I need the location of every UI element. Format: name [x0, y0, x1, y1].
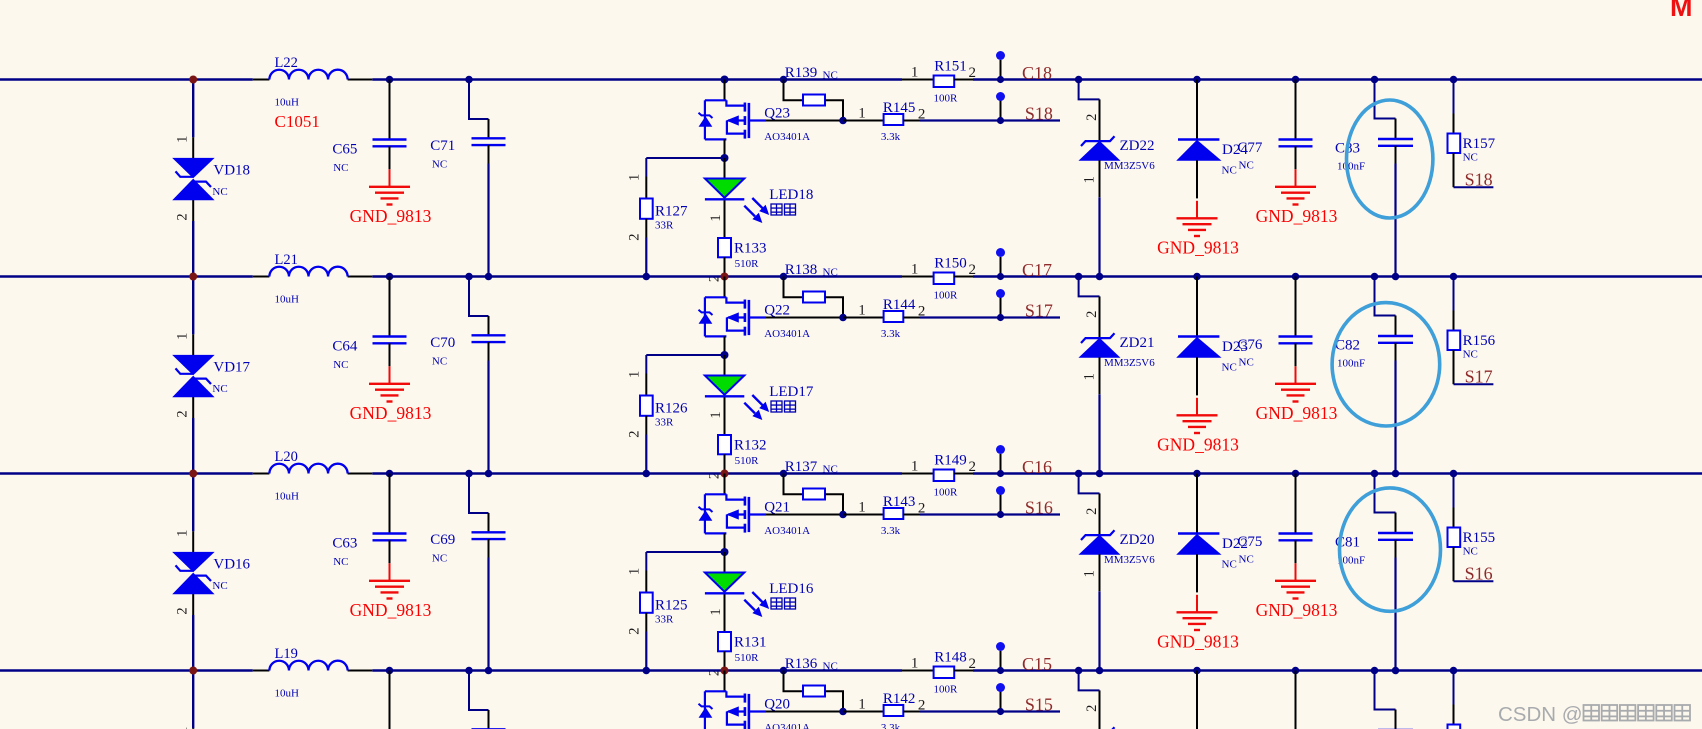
svg-text:C64: C64 — [332, 338, 358, 354]
svg-text:100R: 100R — [934, 93, 959, 105]
svg-text:GND_9813: GND_9813 — [350, 206, 432, 226]
capacitor C71 — [430, 80, 505, 171]
resistor R126 33R — [627, 371, 689, 438]
capacitor C75 NC — [1237, 474, 1312, 566]
svg-text:L19: L19 — [275, 646, 298, 662]
wire gate of Q22 — [766, 317, 843, 319]
resistor R127 33R — [627, 174, 689, 241]
LED light arrows LED18 — [744, 198, 768, 222]
svg-text:R145: R145 — [883, 100, 916, 116]
port S17 — [996, 289, 1053, 321]
zener diode ZD20 MM3Z5V6 — [1079, 474, 1156, 592]
inductor L21 — [253, 252, 372, 305]
svg-text:AO3401A: AO3401A — [764, 525, 810, 537]
node junction (1295,670.5) — [1292, 667, 1300, 675]
svg-text:R150: R150 — [934, 256, 967, 272]
svg-text:NC: NC — [333, 359, 348, 371]
node junction (1078.6,473.5) — [1075, 470, 1083, 478]
transistor Q22 AO3401A — [699, 277, 811, 356]
svg-text:CSDN @: CSDN @ — [1498, 703, 1583, 726]
svg-text:NC: NC — [212, 186, 227, 198]
resistor R155 NC — [1448, 474, 1496, 582]
svg-text:100nF: 100nF — [1337, 358, 1365, 370]
svg-text:M: M — [1670, 0, 1693, 22]
svg-text:L22: L22 — [275, 55, 298, 71]
svg-text:NC: NC — [1463, 349, 1478, 361]
svg-text:2: 2 — [175, 607, 191, 614]
label green-lamp (Chinese) for LED17 — [771, 401, 796, 412]
svg-text:R144: R144 — [883, 297, 916, 313]
node junction (488,473.5) — [485, 470, 493, 478]
svg-text:MM3Z5V6: MM3Z5V6 — [1104, 554, 1155, 566]
svg-text:33R: 33R — [655, 219, 674, 231]
svg-text:R155: R155 — [1463, 530, 1496, 546]
svg-text:C77: C77 — [1237, 140, 1263, 156]
node junction (1197,79.5) — [1193, 76, 1201, 84]
svg-text:1: 1 — [175, 530, 191, 537]
svg-text:2: 2 — [1084, 508, 1100, 515]
LED LED18 green — [705, 158, 813, 238]
svg-text:S17: S17 — [1465, 367, 1493, 387]
node junction (1453.5,473.5) — [1450, 470, 1458, 478]
resistor R132 510R — [707, 435, 767, 479]
wire ZD21 to lower bus — [1098, 394, 1100, 473]
node junction (646,276.5) — [643, 273, 651, 281]
svg-text:C65: C65 — [332, 141, 357, 157]
svg-text:S18: S18 — [1465, 170, 1493, 190]
svg-text:R132: R132 — [734, 437, 767, 453]
svg-text:Q23: Q23 — [764, 105, 790, 121]
resistor R139 NC — [784, 65, 844, 120]
resistor R150 100R — [902, 256, 976, 302]
transistor Q20 AO3401A — [699, 671, 811, 729]
node junction (193,79.5) — [189, 76, 197, 84]
wire C71 to lower bus — [487, 164, 489, 277]
svg-text:C15: C15 — [1022, 654, 1052, 674]
wire LED branch to R126 — [646, 355, 724, 374]
svg-text:10uH: 10uH — [275, 490, 300, 502]
port C17 — [996, 248, 1052, 280]
inductor L20 — [253, 449, 372, 502]
svg-text:2: 2 — [969, 65, 977, 81]
node junction (1078.6,670.5) — [1075, 667, 1083, 675]
svg-text:1: 1 — [1082, 570, 1098, 577]
svg-text:Q22: Q22 — [764, 302, 790, 318]
wire LED branch to R127 — [646, 158, 724, 177]
svg-text:GND_9813: GND_9813 — [1256, 206, 1338, 226]
node junction (1099.5,670.5) — [1096, 667, 1104, 675]
capacitor C74 NC — [1237, 671, 1312, 729]
node junction (488,670.5) — [485, 667, 493, 675]
node junction (843,514.5) — [839, 511, 847, 519]
node junction (1453.5,79.5) — [1450, 76, 1458, 84]
node junction (724,473.5) — [721, 470, 729, 478]
wire ZD22 to lower bus — [1098, 197, 1100, 276]
svg-text:ZD21: ZD21 — [1120, 335, 1155, 351]
node junction (783,473.5) — [780, 470, 788, 478]
svg-text:2: 2 — [627, 430, 643, 437]
port C16 — [996, 445, 1052, 477]
svg-text:C75: C75 — [1237, 534, 1262, 550]
svg-text:C76: C76 — [1237, 337, 1263, 353]
node junction (783,276.5) — [780, 273, 788, 281]
svg-text:2: 2 — [175, 213, 191, 220]
resistor R133 510R — [707, 238, 767, 282]
wire R125 to lower bus — [645, 632, 647, 671]
node junction (1197,473.5) — [1193, 470, 1201, 478]
svg-text:GND_9813: GND_9813 — [1256, 600, 1338, 620]
resistor R143 3.3k — [843, 494, 925, 537]
svg-text:R133: R133 — [734, 240, 767, 256]
ground GND_9813 under D24 — [1157, 201, 1239, 258]
node junction (783,79.5) — [780, 76, 788, 84]
node junction (1099.5,276.5) — [1096, 273, 1104, 281]
svg-text:R139: R139 — [785, 65, 818, 81]
svg-text:GND_9813: GND_9813 — [1157, 238, 1239, 258]
svg-text:NC: NC — [823, 464, 838, 476]
node junction (1295,473.5) — [1292, 470, 1300, 478]
ground GND_9813 under C65 — [350, 169, 432, 226]
svg-text:33R: 33R — [655, 613, 674, 625]
diode D22 NC — [1177, 474, 1247, 593]
svg-text:10uH: 10uH — [275, 96, 300, 108]
ground GND_9813 under D22 — [1157, 595, 1239, 652]
capacitor C83 100nF — [1335, 80, 1413, 173]
wire C69 to lower bus — [487, 558, 489, 671]
svg-text:VD16: VD16 — [213, 556, 250, 572]
svg-text:R125: R125 — [655, 598, 688, 614]
svg-text:NC: NC — [1222, 165, 1237, 177]
wire net C15 row bus y=670.5 — [0, 669, 1702, 671]
svg-text:2: 2 — [627, 627, 643, 634]
capacitor C69 — [430, 474, 505, 565]
wire net C18 row bus y=79.5 — [0, 78, 1702, 80]
svg-text:S18: S18 — [1025, 104, 1053, 124]
svg-text:NC: NC — [1239, 357, 1254, 369]
wire R127 to lower bus — [645, 238, 647, 277]
svg-text:GND_9813: GND_9813 — [1256, 403, 1338, 423]
resistor R138 NC — [784, 262, 844, 317]
resistor R136 NC — [784, 656, 844, 711]
node junction (469,276.5) — [465, 273, 473, 281]
node junction (843,120.5) — [839, 117, 847, 125]
svg-text:GND_9813: GND_9813 — [350, 403, 432, 423]
svg-text:NC: NC — [1463, 152, 1478, 164]
svg-text:GND_9813: GND_9813 — [1157, 435, 1239, 455]
resistor R137 NC — [784, 459, 844, 514]
svg-text:NC: NC — [1239, 160, 1254, 172]
wire net S17 — [920, 316, 1060, 318]
svg-text:1: 1 — [911, 458, 919, 474]
svg-text:LED17: LED17 — [769, 384, 814, 400]
svg-text:2: 2 — [175, 410, 191, 417]
svg-text:1: 1 — [708, 608, 724, 615]
svg-text:2: 2 — [627, 233, 643, 240]
zener diode ZD19 MM3Z5V6 — [1079, 671, 1156, 729]
node junction (193,276.5) — [189, 273, 197, 281]
resistor R144 3.3k — [843, 297, 925, 340]
TVS diode VD15 — [173, 728, 213, 729]
label green-lamp (Chinese) for LED16 — [771, 598, 796, 609]
resistor R142 3.3k — [843, 691, 925, 729]
svg-text:AO3401A: AO3401A — [764, 328, 810, 340]
wire left vertical x=193 — [192, 671, 194, 729]
wire C82 to lower bus — [1394, 361, 1396, 474]
svg-text:C70: C70 — [430, 335, 455, 351]
svg-text:Q21: Q21 — [764, 499, 790, 515]
resistor R149 100R — [902, 453, 976, 499]
svg-text:510R: 510R — [735, 258, 760, 270]
svg-text:1: 1 — [858, 499, 866, 515]
svg-text:ZD22: ZD22 — [1120, 138, 1155, 154]
port S16 — [996, 486, 1053, 518]
wire left vertical x=193 — [192, 277, 194, 476]
svg-text:R151: R151 — [934, 59, 967, 75]
resistor R148 100R — [902, 650, 976, 696]
capacitor C76 NC — [1237, 277, 1312, 369]
svg-text:R136: R136 — [785, 656, 818, 672]
net label S17 right stub — [1454, 367, 1494, 387]
port C15 — [996, 642, 1052, 674]
svg-text:3.3k: 3.3k — [881, 328, 901, 340]
annotation ellipse around C81 — [1340, 488, 1441, 611]
LED light arrows LED16 — [744, 592, 768, 616]
node junction (724,158.0) — [721, 154, 729, 162]
svg-text:VD18: VD18 — [213, 162, 250, 178]
zener diode ZD21 MM3Z5V6 — [1079, 277, 1156, 395]
svg-text:1: 1 — [708, 411, 724, 418]
svg-text:2: 2 — [1084, 114, 1100, 121]
wire net S16 — [920, 513, 1060, 515]
transistor Q23 AO3401A — [699, 80, 811, 159]
svg-text:1: 1 — [858, 302, 866, 318]
svg-text:10uH: 10uH — [275, 293, 300, 305]
LED light arrows LED17 — [744, 395, 768, 419]
node junction (1295,276.5) — [1292, 273, 1300, 281]
node junction (1374.5,79.5) — [1371, 76, 1379, 84]
svg-text:S16: S16 — [1465, 564, 1493, 584]
svg-text:S16: S16 — [1025, 498, 1053, 518]
capacitor C65 — [332, 80, 406, 175]
port S18 — [996, 92, 1053, 124]
svg-text:MM3Z5V6: MM3Z5V6 — [1104, 160, 1155, 172]
svg-text:NC: NC — [1222, 362, 1237, 374]
node junction (783,670.5) — [780, 667, 788, 675]
svg-text:3.3k: 3.3k — [881, 131, 901, 143]
svg-text:C16: C16 — [1022, 457, 1052, 477]
ground GND_9813 under C77 — [1256, 169, 1338, 226]
svg-text:C18: C18 — [1022, 63, 1052, 83]
capacitor C80 100nF — [1335, 671, 1413, 729]
LED LED16 green — [705, 552, 814, 632]
svg-text:R148: R148 — [934, 650, 967, 666]
wire C70 to lower bus — [487, 361, 489, 474]
svg-text:MM3Z5V6: MM3Z5V6 — [1104, 357, 1155, 369]
svg-text:R149: R149 — [934, 453, 967, 469]
resistor R151 100R — [902, 59, 976, 105]
svg-text:1: 1 — [627, 371, 643, 378]
svg-text:100nF: 100nF — [1337, 161, 1365, 173]
resistor R145 3.3k — [843, 100, 925, 143]
svg-text:R142: R142 — [883, 691, 916, 707]
diode D23 NC — [1177, 277, 1247, 396]
node junction (193,473.5) — [189, 470, 197, 478]
resistor R157 NC — [1448, 80, 1496, 188]
resistor R156 NC — [1448, 277, 1496, 385]
node junction (724,552.0) — [721, 548, 729, 556]
wire LED branch to R125 — [646, 552, 724, 571]
node junction (1374.5,276.5) — [1371, 273, 1379, 281]
ground GND_9813 under D23 — [1157, 398, 1239, 455]
svg-text:AO3401A: AO3401A — [764, 722, 810, 729]
svg-text:NC: NC — [1222, 559, 1237, 571]
node junction (469,473.5) — [465, 470, 473, 478]
capacitor C77 NC — [1237, 80, 1312, 172]
inductor L22 — [253, 55, 372, 108]
wire C81 to lower bus — [1394, 558, 1396, 671]
node junction (193,670.5) — [189, 667, 197, 675]
node junction (724,670.5) — [721, 667, 729, 675]
node junction (843,317.5) — [839, 314, 847, 322]
svg-text:GND_9813: GND_9813 — [350, 600, 432, 620]
capacitor C62 — [332, 671, 406, 729]
svg-text:C82: C82 — [1335, 337, 1360, 353]
node junction (646,670.5) — [643, 667, 651, 675]
resistor R131 510R — [707, 632, 767, 676]
wire left vertical x=193 — [192, 80, 194, 279]
node junction (1099.5,473.5) — [1096, 470, 1104, 478]
svg-text:NC: NC — [432, 355, 447, 367]
node junction (390,276.5) — [386, 273, 394, 281]
node junction (1197,276.5) — [1193, 273, 1201, 281]
wire ZD20 to lower bus — [1098, 591, 1100, 670]
svg-text:2: 2 — [969, 656, 977, 672]
wire R126 to lower bus — [645, 435, 647, 474]
watermark CSDN — [1498, 703, 1690, 726]
svg-text:2: 2 — [969, 262, 977, 278]
ground GND_9813 under C76 — [1256, 366, 1338, 423]
LED LED17 green — [705, 355, 814, 435]
wire gate of Q21 — [766, 514, 843, 516]
svg-text:NC: NC — [333, 162, 348, 174]
svg-text:1: 1 — [175, 333, 191, 340]
resistor R125 33R — [627, 568, 688, 635]
port C18 — [996, 51, 1052, 83]
node junction (1395.5,670.5) — [1392, 667, 1400, 675]
svg-text:NC: NC — [432, 158, 447, 170]
node junction (724,355.0) — [721, 351, 729, 359]
svg-text:C69: C69 — [430, 532, 455, 548]
svg-text:C17: C17 — [1022, 260, 1052, 280]
node junction (1395.5,473.5) — [1392, 470, 1400, 478]
svg-text:2: 2 — [1084, 311, 1100, 318]
svg-text:NC: NC — [823, 70, 838, 82]
svg-text:S15: S15 — [1025, 695, 1053, 715]
label green-lamp (Chinese) for LED18 — [771, 204, 796, 215]
svg-text:3.3k: 3.3k — [881, 525, 901, 537]
svg-text:NC: NC — [1239, 554, 1254, 566]
node junction (1395.5,276.5) — [1392, 273, 1400, 281]
svg-text:1: 1 — [1082, 373, 1098, 380]
svg-text:100R: 100R — [934, 487, 959, 499]
svg-text:NC: NC — [823, 661, 838, 673]
svg-text:2: 2 — [969, 459, 977, 475]
svg-text:R131: R131 — [734, 634, 767, 650]
node junction (724,276.5) — [721, 273, 729, 281]
svg-text:10uH: 10uH — [275, 687, 300, 699]
node junction (469,670.5) — [465, 667, 473, 675]
svg-text:510R: 510R — [735, 652, 760, 664]
svg-text:3.3k: 3.3k — [881, 722, 901, 729]
svg-text:R126: R126 — [655, 401, 688, 417]
node junction (1197,670.5) — [1193, 667, 1201, 675]
svg-text:1: 1 — [911, 64, 919, 80]
node junction (1078.6,79.5) — [1075, 76, 1083, 84]
svg-text:100R: 100R — [934, 684, 959, 696]
svg-text:Q20: Q20 — [764, 696, 790, 712]
svg-text:100R: 100R — [934, 290, 959, 302]
svg-text:NC: NC — [333, 556, 348, 568]
capacitor C68 — [430, 671, 505, 729]
diode D21 NC — [1177, 671, 1247, 729]
diode D24 NC — [1177, 80, 1248, 199]
TVS diode VD18 — [173, 137, 213, 221]
zener diode ZD22 MM3Z5V6 — [1079, 80, 1156, 198]
svg-text:NC: NC — [1463, 546, 1478, 558]
wire gate of Q20 — [766, 711, 843, 713]
port S15 — [996, 683, 1053, 715]
svg-text:C63: C63 — [332, 535, 357, 551]
node junction (1374.5,473.5) — [1371, 470, 1379, 478]
svg-text:C71: C71 — [430, 138, 455, 154]
node junction (390,79.5) — [386, 76, 394, 84]
transistor Q21 AO3401A — [699, 474, 811, 553]
wire net S18 — [920, 119, 1060, 121]
ground GND_9813 under C63 — [350, 563, 432, 620]
svg-text:AO3401A: AO3401A — [764, 131, 810, 143]
TVS diode VD17 — [173, 334, 213, 418]
svg-text:R157: R157 — [1463, 136, 1496, 152]
svg-text:C1051: C1051 — [275, 112, 320, 131]
svg-text:ZD20: ZD20 — [1120, 532, 1155, 548]
wire left vertical x=193 — [192, 474, 194, 673]
ground GND_9813 under C64 — [350, 366, 432, 423]
node junction (469,79.5) — [465, 76, 473, 84]
node junction (1453.5,670.5) — [1450, 667, 1458, 675]
svg-text:R138: R138 — [785, 262, 818, 278]
node junction (646,473.5) — [643, 470, 651, 478]
ground GND_9813 under C75 — [1256, 563, 1338, 620]
svg-text:1: 1 — [911, 655, 919, 671]
svg-text:NC: NC — [432, 552, 447, 564]
capacitor C63 — [332, 474, 406, 569]
svg-text:1: 1 — [627, 174, 643, 181]
svg-text:NC: NC — [212, 383, 227, 395]
annotation ellipse around C82 — [1332, 303, 1440, 426]
svg-text:2: 2 — [1084, 705, 1100, 712]
capacitor C82 100nF — [1335, 277, 1413, 370]
svg-text:1: 1 — [858, 696, 866, 712]
node junction (1374.5,670.5) — [1371, 667, 1379, 675]
svg-text:1: 1 — [1082, 176, 1098, 183]
svg-text:33R: 33R — [655, 416, 674, 428]
svg-text:1: 1 — [858, 105, 866, 121]
svg-text:S17: S17 — [1025, 301, 1053, 321]
svg-text:VD17: VD17 — [213, 359, 250, 375]
node junction (1295,79.5) — [1292, 76, 1300, 84]
svg-text:1: 1 — [911, 261, 919, 277]
inductor L19 — [253, 646, 372, 699]
